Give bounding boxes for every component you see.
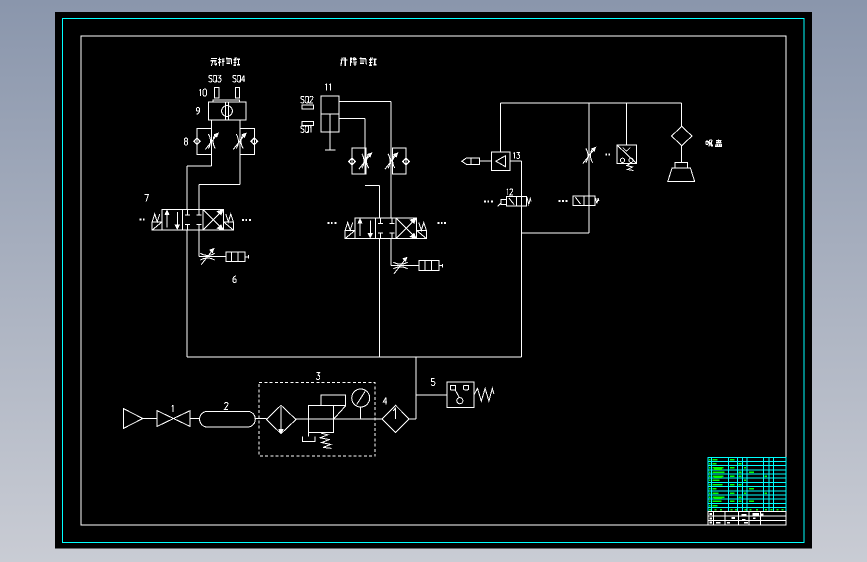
valve 12 tiny label (484, 201, 486, 203)
valve 12b (3/2) (573, 196, 595, 206)
title block text marks (710, 513, 713, 515)
valve 7 tiny coil label right (242, 219, 244, 221)
flow control valve 8 left box (197, 128, 212, 154)
wire bus to vacuum generator (499, 103, 501, 152)
sensor SQ2 reed switch (302, 105, 314, 109)
FRL unit 3 dashed enclosure (259, 383, 375, 457)
label 10 (200, 89, 202, 96)
flow control valve 8 right throttle (236, 134, 238, 148)
wire valveB port A down to bus (379, 239, 381, 358)
flow control valve 8 left throttle (208, 134, 210, 148)
label 1 (172, 405, 174, 412)
directional valve B (5/3 solenoid) (355, 218, 417, 239)
lifting cylinder 11 body (321, 96, 339, 132)
wire main bus (187, 356, 522, 358)
wire cylinder11 bottom port (339, 118, 365, 120)
flow control valve right check ball (404, 159, 409, 164)
wire bus to filter (681, 103, 683, 126)
label 吸盘 (706, 140, 713, 147)
throttle of lower muffler (393, 262, 407, 264)
wire cylinder9 right port (239, 120, 241, 185)
main supply line through FRL (296, 418, 382, 420)
air reservoir 2 (200, 411, 256, 427)
sensor SQ1 reed switch (302, 121, 314, 125)
wire cylinder9 left port (211, 120, 213, 166)
wire branch to pressure switch 5 (416, 394, 447, 396)
pressure switch 5 (447, 382, 474, 407)
wire supply stem (415, 357, 417, 419)
suction cup 吸盘 (675, 163, 688, 169)
wire valveB port B to muffler (390, 239, 392, 266)
shut-off valve 1 (157, 411, 173, 427)
regulator drain bracket (307, 432, 309, 436)
flow control valve left throttle (362, 154, 364, 168)
wire right flow valve to valve B (390, 174, 392, 218)
flow control valve 8 left check ball (195, 139, 200, 144)
label SQ3 (209, 75, 212, 82)
flow control valve left box (cyl 11) (352, 148, 366, 174)
cylinder 10 slide rail (213, 100, 240, 102)
muffler 6 (226, 252, 245, 261)
parts list table (cyan) (708, 457, 786, 511)
label SQ2 (301, 96, 304, 103)
label 5 (431, 379, 435, 386)
flow control valve 8 right box (240, 128, 254, 154)
valve 7 tiny coil label left (140, 219, 142, 221)
valve 12b tiny label (559, 200, 561, 202)
label SQ4 (233, 75, 236, 82)
label 13 (513, 152, 515, 158)
flow control valve 8 right check ball (252, 139, 257, 144)
flow control valve right throttle (388, 154, 390, 168)
filter 4 (382, 405, 409, 432)
label 14 (606, 154, 607, 156)
rodless cylinder 9 body (209, 102, 247, 120)
white drawing frame (81, 36, 786, 525)
valve B tiny coil label left (328, 222, 330, 224)
flow control valve right box (cyl 11) (392, 148, 406, 174)
title block (white) (708, 512, 786, 525)
cyan layout border (63, 19, 805, 543)
label 9 (196, 108, 199, 115)
pressure regulator (308, 406, 333, 433)
label 12 (507, 189, 509, 195)
label 6 (233, 276, 236, 283)
sensor SQ4 reed switch (236, 88, 240, 99)
label 2 (224, 403, 228, 410)
wire top vacuum bus (500, 102, 681, 104)
valve 12 (3/2 solenoid) (507, 197, 527, 207)
muffler below valve B (419, 261, 439, 271)
label SQ1 (301, 126, 304, 133)
vacuum generator 13 (492, 152, 511, 171)
wire valve7 port A down to bus (186, 230, 188, 357)
wire right leg to valve 7 (199, 184, 240, 186)
flow control valve left check ball (350, 159, 355, 164)
wire left flow valve to valve B (365, 185, 380, 187)
parts list green text (709, 459, 711, 461)
label 4 (383, 398, 387, 403)
cylinder 9 piston (222, 106, 233, 117)
wire generator to valve 12 (510, 160, 522, 162)
vacuum filter diamond (672, 126, 693, 145)
pressure gauge (352, 389, 370, 407)
wire valve7 port B down to muffler 6 (198, 230, 200, 257)
label 7 (145, 195, 149, 202)
label 8 (184, 138, 187, 145)
wire cylinder11 top port (339, 100, 391, 102)
regulator spring (320, 433, 332, 448)
sensor SQ3 reed switch (215, 88, 220, 99)
valve B tiny coil label right (437, 222, 439, 224)
wire bus to vacuum switch 14 (626, 103, 628, 145)
cylinder 11 piston rod (329, 114, 331, 150)
pressure switch 5 spring (474, 388, 494, 401)
throttle on branch (586, 148, 588, 162)
label 11 (326, 84, 328, 91)
directional valve 7 (162, 210, 224, 231)
filter with water separator (266, 405, 296, 433)
vacuum switch 14 (617, 145, 637, 164)
wire throttle branch (588, 103, 590, 233)
wire left leg to valve 7 (187, 165, 212, 167)
air source triangle (123, 409, 142, 429)
exhaust silencer of generator (462, 158, 480, 164)
label 3 (316, 373, 320, 380)
throttle of muffler 6 (200, 253, 214, 255)
label 升降气缸 (lifting cylinder) (340, 58, 347, 67)
label 无杆气缸 (rodless cylinder) (211, 59, 217, 67)
wire valve 12 down and junction (521, 206, 523, 357)
